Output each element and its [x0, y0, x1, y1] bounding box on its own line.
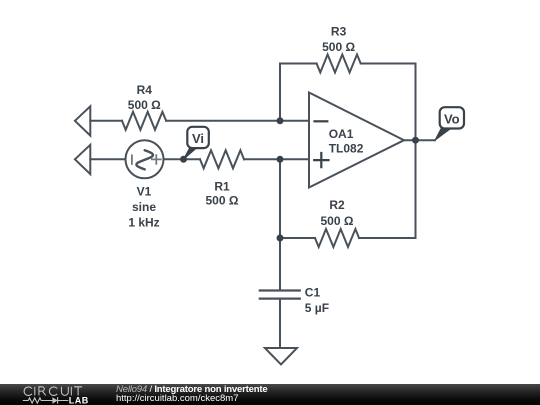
svg-text:Vi: Vi: [192, 131, 204, 146]
junction dot R2 / C1 bus: [277, 235, 284, 242]
footer bar: [0, 384, 540, 405]
svg-text:LAB: LAB: [69, 396, 89, 405]
svg-text:V1: V1: [137, 185, 152, 199]
op-amp OA1 triangle: [309, 93, 404, 188]
logo letter I: [34, 387, 36, 396]
svg-text:Vo: Vo: [444, 112, 460, 127]
logo letter C: [49, 387, 57, 396]
resistor R2: [315, 229, 359, 247]
wire R1 to op-amp plus input: [244, 158, 309, 160]
svg-text:R3: R3: [331, 25, 347, 39]
logo letter R: [39, 387, 46, 396]
svg-text:500 Ω: 500 Ω: [128, 98, 161, 112]
V1 minus terminal mark: [131, 155, 133, 164]
op-amp plus pin mark: [314, 153, 328, 167]
svg-text:500 Ω: 500 Ω: [321, 214, 354, 228]
V1 sine squiggle: [136, 150, 153, 169]
junction dot minus-input / R3 bus: [277, 117, 284, 124]
node label Vi box: [187, 127, 209, 148]
logo letter T: [74, 387, 82, 396]
svg-text:500 Ω: 500 Ω: [206, 194, 239, 208]
V1 plus terminal mark: [152, 155, 161, 164]
CircuitLab logo: [0, 384, 100, 405]
capacitor C1 bottom plate: [260, 298, 300, 300]
resistor R4: [122, 112, 166, 130]
wire R3 to right bus: [361, 64, 416, 141]
node label Vo box: [440, 107, 464, 128]
node label Vo pointer wedge: [435, 129, 451, 141]
logo letter U: [62, 387, 69, 396]
junction dot output node Vo: [412, 137, 419, 144]
wire C1 to ground: [279, 299, 281, 348]
svg-text:C1: C1: [305, 286, 321, 300]
svg-text:TL082: TL082: [329, 141, 364, 155]
logo wire + resistor + diode glyph: [23, 397, 69, 403]
wire R2 to right bus: [359, 140, 416, 238]
svg-text:1 kHz: 1 kHz: [128, 216, 159, 230]
logo diode triangle: [52, 397, 57, 403]
input port arrow (bottom, to V1): [75, 145, 90, 174]
wire arrow to V1: [90, 158, 125, 160]
wire op-amp output to node Vo: [404, 139, 435, 141]
resistor R1: [200, 150, 244, 168]
logo letter I: [70, 387, 72, 396]
capacitor C1 top plate: [260, 289, 300, 291]
wire R4 to op-amp minus input: [166, 120, 309, 122]
svg-text:sine: sine: [132, 200, 156, 214]
wire arrow to R4: [90, 120, 122, 122]
svg-text:R4: R4: [137, 83, 153, 97]
junction dot node Vi: [180, 156, 187, 163]
op-amp minus pin mark: [315, 120, 328, 122]
junction dot plus-input / R2 bus: [277, 156, 284, 163]
resistor R3: [317, 55, 361, 73]
svg-text:R1: R1: [214, 180, 230, 194]
wire vertical: minus node up to R3: [280, 64, 317, 121]
node label Vi pointer wedge: [184, 148, 197, 159]
ground symbol: [265, 348, 297, 365]
svg-text:OA1: OA1: [329, 127, 354, 141]
svg-text:R2: R2: [329, 198, 345, 212]
svg-text:5 µF: 5 µF: [305, 301, 329, 315]
wire vertical: plus node down to R2 / C1: [279, 159, 281, 290]
wire V1 to node Vi: [164, 158, 201, 160]
voltage source V1 circle: [126, 140, 164, 178]
input port arrow (top, to R4): [75, 106, 90, 135]
credit text: [116, 384, 268, 404]
wire R2 row: [280, 237, 315, 239]
svg-text:500 Ω: 500 Ω: [322, 40, 355, 54]
logo letter C: [24, 387, 32, 396]
